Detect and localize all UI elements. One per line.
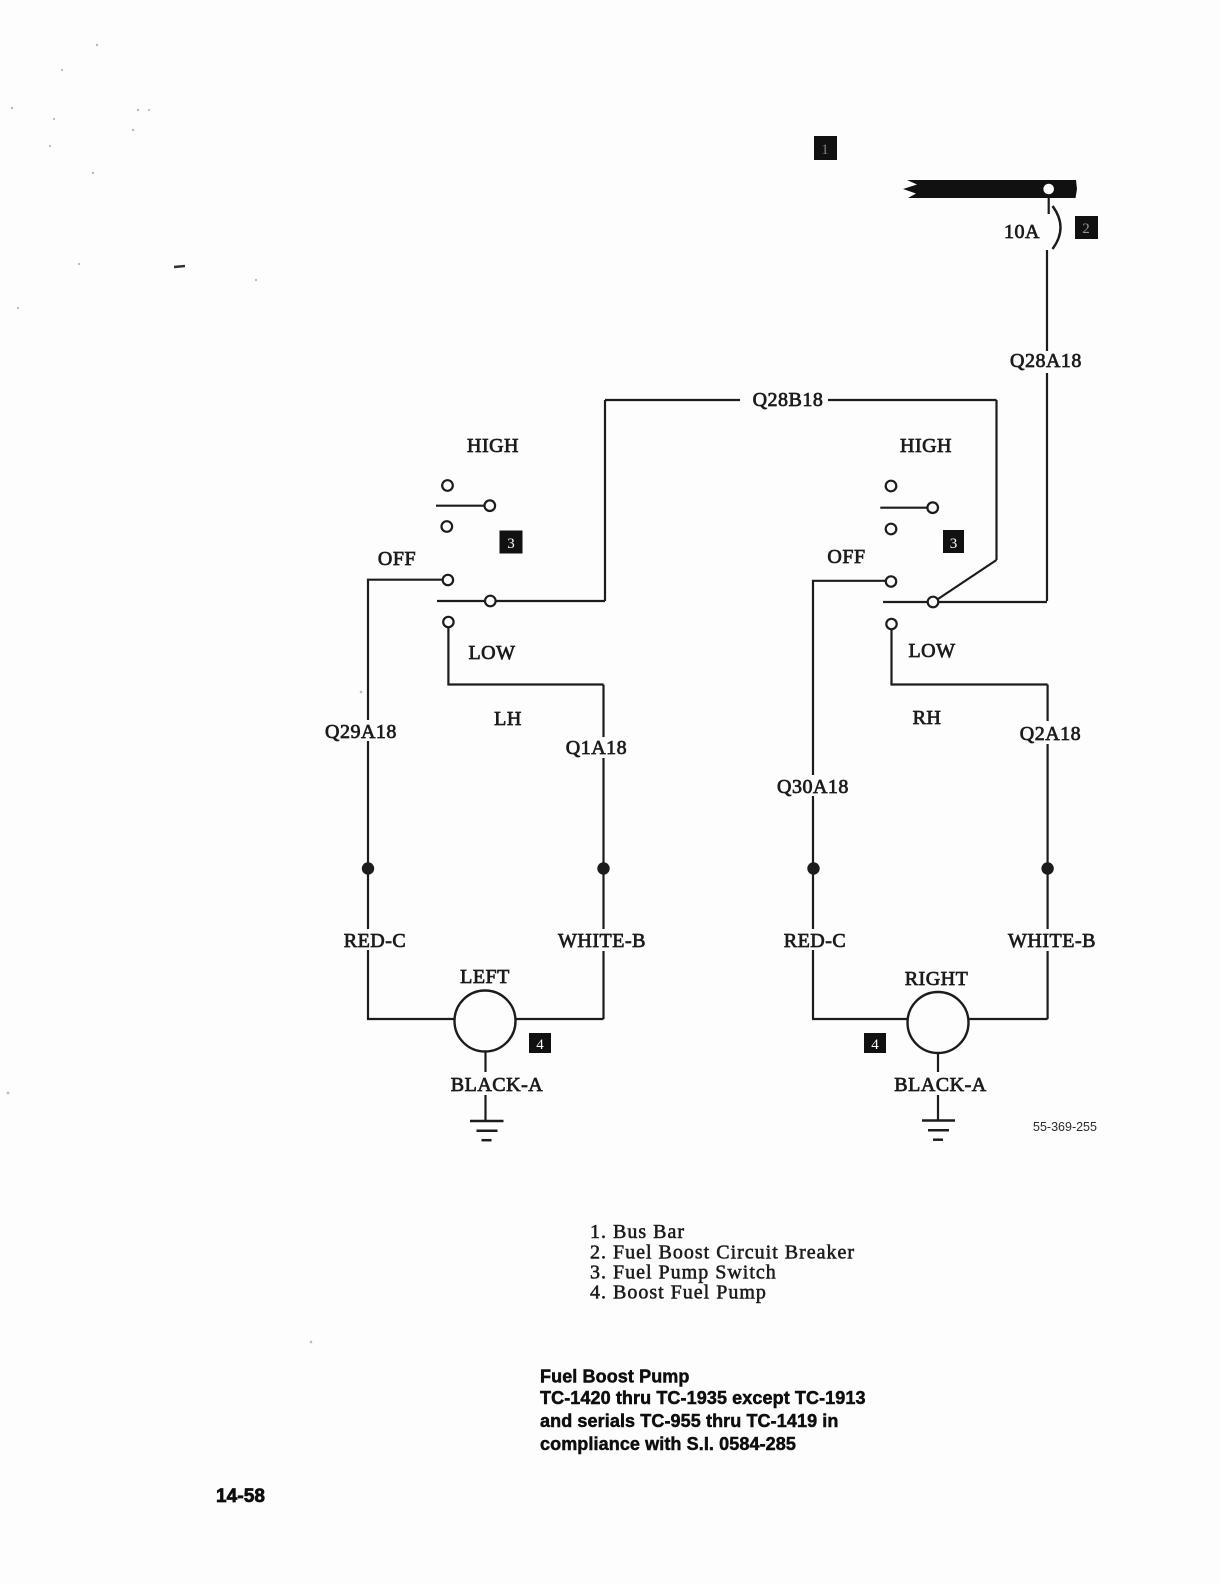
callout box 2 — [1075, 216, 1098, 239]
svg-text:LH: LH — [494, 708, 522, 730]
svg-text:Fuel Boost Pump: Fuel Boost Pump — [540, 1367, 690, 1387]
right switch OFF terminal — [886, 576, 896, 586]
svg-text:Q29A18: Q29A18 — [325, 721, 397, 743]
right switch HIGH lever — [880, 507, 926, 509]
svg-text:Q28B18: Q28B18 — [753, 389, 824, 411]
svg-text:HIGH: HIGH — [900, 435, 952, 457]
boost fuel pump RIGHT — [908, 992, 969, 1053]
right switch main lever — [883, 601, 927, 603]
svg-text:RED-C: RED-C — [344, 930, 407, 952]
svg-text:WHITE-B: WHITE-B — [1008, 930, 1096, 952]
left switch HIGH upper terminal — [442, 480, 453, 491]
svg-text:1: 1 — [821, 142, 829, 158]
svg-text:compliance with S.I. 0584-285: compliance with S.I. 0584-285 — [540, 1434, 796, 1454]
callout box 1 — [814, 136, 837, 160]
left switch middle terminal — [442, 521, 453, 532]
svg-text:RED-C: RED-C — [784, 930, 847, 952]
wire: right LOW terminal down and right — [892, 630, 1048, 685]
callout box 4 (right) — [864, 1033, 886, 1053]
svg-text:RIGHT: RIGHT — [905, 968, 969, 990]
svg-text:BLACK-A: BLACK-A — [451, 1074, 543, 1096]
svg-text:BLACK-A: BLACK-A — [894, 1074, 986, 1096]
svg-text:RH: RH — [913, 707, 942, 729]
boost fuel pump LEFT — [455, 991, 516, 1052]
callout box 4 (left) — [529, 1033, 551, 1053]
wire: right inner branch down (Q2A18 / WHITE-B) — [1046, 685, 1048, 722]
svg-text:2: 2 — [1082, 221, 1090, 237]
right switch HIGH upper terminal — [886, 481, 897, 492]
wire: left OFF terminal to left drop — [368, 579, 442, 581]
svg-text:TC-1420 thru TC-1935 except TC: TC-1420 thru TC-1935 except TC-1913 — [540, 1388, 866, 1408]
wire: right pump to ground — [937, 1053, 939, 1072]
svg-text:2. Fuel Boost Circuit Breaker: 2. Fuel Boost Circuit Breaker — [590, 1241, 855, 1263]
svg-text:3: 3 — [507, 536, 515, 552]
svg-text:4: 4 — [871, 1037, 879, 1053]
ground (right) — [922, 1121, 955, 1140]
wire: right branch down (Q30A18 / RED-C) — [812, 581, 814, 775]
svg-text:3. Fuel Pump Switch: 3. Fuel Pump Switch — [590, 1262, 777, 1284]
wire: bus bar to breaker — [1048, 198, 1050, 215]
wire Q28A18: breaker down to right switch lever — [1046, 250, 1048, 351]
svg-text:Q2A18: Q2A18 — [1020, 723, 1081, 745]
left switch main lever — [437, 600, 484, 602]
svg-text:Q28A18: Q28A18 — [1010, 350, 1082, 372]
callout box 3 (right) — [943, 530, 964, 553]
svg-text:Q30A18: Q30A18 — [777, 776, 849, 798]
junction dot left RED — [362, 862, 374, 874]
wire: left inner branch down (Q1A18 / WHITE-B) — [602, 685, 604, 738]
svg-text:4: 4 — [536, 1037, 544, 1053]
wire: left branch down (Q29A18 / RED-C) — [367, 580, 369, 720]
wire: Q28B18 right drop — [995, 400, 997, 560]
svg-text:10A: 10A — [1004, 221, 1040, 243]
ground (left) — [470, 1121, 504, 1140]
wire: diagonal to right switch lever — [938, 560, 997, 599]
right switch middle terminal — [886, 524, 897, 535]
svg-text:OFF: OFF — [827, 546, 865, 568]
wire: left pump to ground — [484, 1052, 486, 1073]
svg-text:LEFT: LEFT — [460, 966, 510, 988]
callout box 3 (left) — [500, 531, 523, 554]
svg-text:OFF: OFF — [378, 548, 416, 570]
svg-text:14-58: 14-58 — [216, 1486, 265, 1507]
svg-text:55-369-255: 55-369-255 — [1033, 1120, 1097, 1134]
scan speckles — [7, 44, 363, 1343]
wire: Q28B18 left drop to left switch lever — [604, 400, 606, 601]
svg-text:3: 3 — [950, 536, 958, 552]
svg-text:HIGH: HIGH — [467, 435, 519, 457]
svg-text:4. Boost Fuel Pump: 4. Boost Fuel Pump — [590, 1282, 767, 1304]
svg-text:LOW: LOW — [908, 640, 955, 662]
junction dot right RED — [807, 862, 819, 874]
wire Q28B18 horizontal — [605, 399, 740, 401]
svg-text:WHITE-B: WHITE-B — [558, 930, 646, 952]
wire: left LOW terminal down and right — [448, 628, 603, 685]
svg-text:LOW: LOW — [468, 642, 515, 664]
bus bar — [903, 180, 1077, 198]
left switch HIGH lever — [436, 505, 484, 507]
left switch LOW terminal — [443, 617, 453, 627]
junction dot left WHITE — [597, 862, 609, 874]
bus bar terminal (white dot) — [1043, 184, 1054, 195]
junction dot right WHITE — [1041, 862, 1053, 874]
stray scan mark — [174, 266, 185, 267]
svg-text:1. Bus Bar: 1. Bus Bar — [590, 1221, 685, 1243]
left switch OFF terminal — [443, 575, 453, 585]
circuit breaker CB (10A) arc — [1053, 206, 1061, 249]
right switch LOW terminal — [886, 619, 896, 629]
wire: right OFF terminal to right drop — [813, 580, 886, 582]
svg-text:and serials TC-955 thru TC-141: and serials TC-955 thru TC-1419 in — [540, 1411, 839, 1431]
svg-text:Q1A18: Q1A18 — [566, 737, 627, 759]
